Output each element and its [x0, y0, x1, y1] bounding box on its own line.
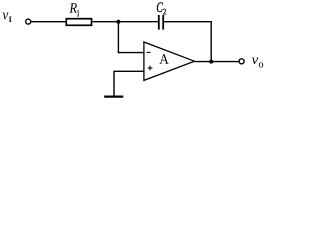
resistor R1	[66, 19, 91, 26]
label vI	[3, 13, 12, 22]
ground	[104, 95, 123, 97]
wire: R1 to C2 left plate	[93, 21, 158, 23]
input terminal vI	[26, 19, 31, 24]
wire: input terminal to R1	[31, 21, 66, 23]
node: inverting input junction	[116, 20, 120, 24]
op-amp A	[144, 42, 195, 80]
wire: op-amp non-inverting input to ground	[114, 71, 144, 96]
wire: op-amp output to output terminal	[194, 61, 239, 63]
label C2	[157, 2, 166, 14]
wire: C2 right plate to output node	[164, 22, 211, 62]
capacitor C2	[159, 15, 163, 30]
label R1	[69, 3, 79, 16]
node: output junction	[209, 60, 213, 64]
output terminal vO	[239, 59, 244, 64]
wire: junction down to op-amp inverting input	[118, 22, 143, 53]
label vO	[252, 58, 263, 68]
